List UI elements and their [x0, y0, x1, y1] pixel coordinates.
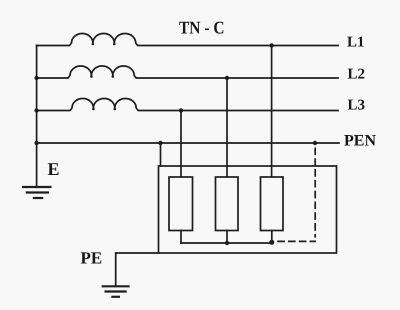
wire PEN conductor [37, 142, 339, 144]
wire: PE conductor to earth [116, 253, 159, 286]
svg-text:PEN: PEN [344, 133, 376, 150]
wire L2 with inductor winding W2 [37, 66, 338, 78]
junction: bus / load R2 [225, 241, 229, 245]
wire: drop from L3 to load R1 [180, 111, 182, 178]
svg-text:L2: L2 [348, 67, 366, 83]
winding W3 valley dots [92, 108, 95, 111]
junction: PEN / enclosure stub [158, 141, 162, 145]
svg-text:L1: L1 [347, 35, 365, 51]
winding W1 valley dots [92, 43, 95, 46]
load R3 [261, 177, 284, 231]
svg-text:TN - C: TN - C [179, 18, 225, 38]
junction: left bus / L3 [34, 108, 38, 112]
junction: left bus / L2 [34, 76, 38, 80]
svg-text:L3: L3 [348, 98, 366, 114]
wire: stub below load R1 [180, 231, 182, 244]
enclosure box of consumer installation [159, 166, 337, 253]
wire: neutral bus inside enclosure [181, 242, 272, 244]
svg-text:PE: PE [81, 249, 103, 268]
ground symbol E (system earth) [22, 186, 52, 188]
winding W2 valley dots [90, 75, 93, 78]
wire L3 with inductor winding W3 [37, 99, 338, 111]
junction: L3 / drop wire [179, 108, 183, 112]
ground symbol PE (protective earth) [102, 285, 130, 287]
wire: stub below load R3 [271, 231, 273, 243]
junction: left bus / PEN [34, 141, 38, 145]
junction: L2 / drop wire [225, 76, 229, 80]
wire: PEN stub to enclosure [160, 143, 162, 166]
svg-text:E: E [48, 159, 60, 179]
wire: left vertical earthing bus [36, 46, 38, 187]
junction: L1 / drop wire [269, 43, 273, 47]
wire: stub below load R2 [226, 231, 228, 244]
junction: PEN / dashed link [313, 141, 317, 145]
junction: bus / load R3 / dashed link [269, 240, 274, 245]
load R1 [169, 177, 193, 231]
wire L1 with inductor winding W1 [37, 34, 338, 46]
wire: drop from L1 to load R3 [271, 46, 273, 178]
wire: dashed PEN-to-bus link (horizontal) [278, 240, 315, 242]
wire: drop from L2 to load R2 [226, 78, 228, 177]
load R2 [216, 177, 239, 231]
wire: dashed PEN-to-bus link (vertical) [314, 148, 316, 237]
